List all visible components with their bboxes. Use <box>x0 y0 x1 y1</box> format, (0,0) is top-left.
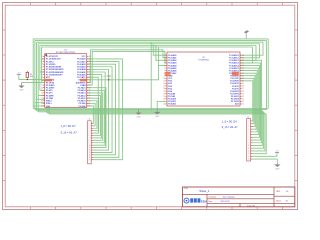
svg-text:16: 16 <box>89 159 91 161</box>
U1 highlighted pin left <box>45 79 52 82</box>
svg-text:1_5 = D0..D4: 1_5 = D0..D4 <box>222 120 237 123</box>
svg-text:GND: GND <box>155 116 160 118</box>
svg-text:P2.6/A14: P2.6/A14 <box>231 98 240 101</box>
svg-text:P0.5/AD5: P0.5/AD5 <box>168 67 176 70</box>
svg-text:1/1: 1/1 <box>286 200 289 202</box>
svg-text:26: 26 <box>89 93 91 95</box>
svg-text:21: 21 <box>89 106 91 108</box>
svg-text:10: 10 <box>89 145 91 147</box>
svg-text:11: 11 <box>248 148 250 150</box>
svg-text:37: 37 <box>242 63 244 65</box>
ground under U2 <box>157 101 167 109</box>
svg-text:18: 18 <box>163 98 165 100</box>
svg-text:J1: J1 <box>88 119 90 121</box>
svg-text:17: 17 <box>41 98 43 100</box>
frame zone ticks <box>29 3 31 6</box>
svg-text:P1.4/ADC4: P1.4/ADC4 <box>229 64 240 67</box>
svg-text:25: 25 <box>89 95 91 97</box>
svg-text:1: 1 <box>42 56 43 58</box>
svg-text:Sheet_1: Sheet_1 <box>199 189 210 193</box>
svg-text:P1.3/ADC3: P1.3/ADC3 <box>229 62 239 65</box>
svg-text:P2.4/A12: P2.4/A12 <box>168 103 176 106</box>
connector J2 <box>247 119 251 161</box>
svg-text:Drawn By:: Drawn By: <box>247 205 256 207</box>
svg-text:P2.2/A10: P2.2/A10 <box>168 98 176 101</box>
svg-text:P0.1/AD1: P0.1/AD1 <box>168 57 176 60</box>
svg-text:P1.2/ADC2: P1.2/ADC2 <box>229 59 239 62</box>
junction RST <box>27 79 28 80</box>
svg-text:P0.2/AD2: P0.2/AD2 <box>77 63 85 66</box>
svg-text:15: 15 <box>41 93 43 95</box>
svg-text:12: 12 <box>248 151 250 153</box>
svg-text:GND: GND <box>136 116 141 118</box>
svg-text:40: 40 <box>89 56 91 58</box>
svg-text:12: 12 <box>163 83 165 85</box>
svg-text:4: 4 <box>42 64 43 66</box>
svg-text:19: 19 <box>41 103 43 105</box>
svg-text:25: 25 <box>242 93 244 95</box>
svg-text:J2: J2 <box>247 117 249 119</box>
svg-text:ALE/PROG: ALE/PROG <box>76 81 86 84</box>
svg-text:2022-11-29: 2022-11-29 <box>220 201 229 203</box>
svg-text:P2.5/A13: P2.5/A13 <box>231 95 239 98</box>
svg-text:P0.0/AD0: P0.0/AD0 <box>168 54 176 57</box>
svg-text:P0.4/AD4: P0.4/AD4 <box>168 64 177 67</box>
svg-text:9: 9 <box>42 77 43 79</box>
svg-text:GND: GND <box>46 106 51 108</box>
svg-text:P2.3/A11: P2.3/A11 <box>168 100 176 103</box>
wire RST net <box>19 79 45 81</box>
svg-text:31: 31 <box>89 79 91 81</box>
U1 pin1 mark <box>45 54 47 56</box>
svg-text:14: 14 <box>163 88 165 90</box>
ground reset circuit <box>22 81 45 83</box>
svg-text:12: 12 <box>41 85 43 87</box>
svg-text:P2.3/A11: P2.3/A11 <box>78 97 86 100</box>
svg-text:P0.0/AD0: P0.0/AD0 <box>77 58 85 61</box>
svg-text:P0.5/AD5: P0.5/AD5 <box>77 71 85 74</box>
svg-text:REV:: REV: <box>276 191 281 193</box>
svg-text:16: 16 <box>41 95 43 97</box>
svg-text:10: 10 <box>248 145 250 147</box>
svg-text:30: 30 <box>89 82 91 84</box>
svg-text:6: 6 <box>42 69 43 71</box>
resistor R1 <box>26 72 29 77</box>
svg-text:13: 13 <box>89 152 91 154</box>
svg-text:24: 24 <box>242 96 244 98</box>
svg-text:26: 26 <box>242 91 244 93</box>
svg-text:XTAL2: XTAL2 <box>46 100 52 103</box>
svg-text:Your Company: Your Company <box>223 197 235 199</box>
svg-text:34: 34 <box>242 70 244 72</box>
svg-text:3: 3 <box>42 61 43 63</box>
svg-text:P0.3/AD3: P0.3/AD3 <box>168 62 176 65</box>
U2 pins and labels <box>165 54 167 56</box>
svg-text:P2.6/A14: P2.6/A14 <box>78 89 87 92</box>
svg-text:P4.2: P4.2 <box>168 85 172 88</box>
svg-text:20: 20 <box>41 106 43 108</box>
svg-text:32: 32 <box>89 77 91 79</box>
svg-text:14: 14 <box>248 156 250 158</box>
wire left wrap verticals <box>32 39 34 109</box>
svg-text:15: 15 <box>163 91 165 93</box>
logo JLCEDA <box>184 198 189 203</box>
power +5V port top <box>244 30 249 33</box>
svg-text:P4.0: P4.0 <box>168 80 172 83</box>
power +5V mid tap <box>108 76 110 80</box>
svg-text:P1.4/CEX1/SS/MI: P1.4/CEX1/SS/MI <box>46 66 62 69</box>
svg-text:28: 28 <box>89 87 91 89</box>
svg-text:P1.7/CEX4/SCK/P7: P1.7/CEX4/SCK/P7 <box>46 73 63 76</box>
svg-text:P2.0/A8: P2.0/A8 <box>79 105 86 108</box>
svg-text:16: 16 <box>163 93 165 95</box>
svg-text:21: 21 <box>242 104 244 106</box>
svg-text:7: 7 <box>164 70 165 72</box>
svg-text:15: 15 <box>89 157 91 159</box>
sheet border frame <box>3 3 298 210</box>
svg-text:23: 23 <box>89 100 91 102</box>
svg-text:39: 39 <box>242 57 244 59</box>
svg-text:Company:: Company: <box>208 197 217 199</box>
svg-text:P0.7/AD7: P0.7/AD7 <box>77 76 85 79</box>
svg-text:38: 38 <box>89 61 91 63</box>
svg-text:P0.3/AD3: P0.3/AD3 <box>77 66 85 69</box>
wire U2 right to J2 staircase <box>240 81 253 121</box>
svg-text:28: 28 <box>242 86 244 88</box>
svg-text:P3.4/T0: P3.4/T0 <box>46 89 53 92</box>
svg-text:38: 38 <box>242 60 244 62</box>
svg-text:29: 29 <box>89 85 91 87</box>
svg-text:15: 15 <box>248 159 250 161</box>
svg-text:GND: GND <box>19 90 24 92</box>
wire bundle to U2 left pins <box>150 42 152 111</box>
svg-text:EDA: EDA <box>201 200 208 204</box>
svg-text:40: 40 <box>242 55 244 57</box>
svg-text:+5V: +5V <box>102 76 106 78</box>
svg-text:8: 8 <box>42 74 43 76</box>
svg-text:P3.4/T0: P3.4/T0 <box>232 85 239 88</box>
svg-text:P2.2/A10: P2.2/A10 <box>78 100 86 103</box>
svg-text:P2.0/A8: P2.0/A8 <box>168 92 175 95</box>
ic U2 body <box>167 52 240 106</box>
svg-text:1_8 = D0..D7: 1_8 = D0..D7 <box>61 124 77 128</box>
ground right of J2 <box>276 159 278 162</box>
svg-text:34: 34 <box>89 72 91 74</box>
svg-text:31: 31 <box>242 78 244 80</box>
svg-text:Sheet:: Sheet: <box>276 199 282 202</box>
svg-text:22: 22 <box>89 103 91 105</box>
svg-text:36: 36 <box>89 66 91 68</box>
svg-text:P0.6/AD6: P0.6/AD6 <box>77 73 85 76</box>
svg-text:20: 20 <box>163 104 165 106</box>
svg-text:12: 12 <box>89 150 91 152</box>
svg-text:39: 39 <box>89 59 91 61</box>
svg-text:5: 5 <box>42 66 43 68</box>
power +5V right of J2 <box>276 153 278 157</box>
svg-text:36: 36 <box>242 65 244 67</box>
svg-text:P2.7/A15: P2.7/A15 <box>78 86 86 89</box>
svg-text:30: 30 <box>242 80 244 82</box>
svg-text:P1.1/ADC1: P1.1/ADC1 <box>229 57 239 60</box>
svg-text:P2.7/A15: P2.7/A15 <box>231 100 239 103</box>
svg-text:35: 35 <box>242 68 244 70</box>
svg-text:XTAL1: XTAL1 <box>46 102 52 105</box>
wire EA net <box>87 66 159 80</box>
svg-text:10: 10 <box>163 78 165 80</box>
ic U1 body <box>45 54 87 108</box>
svg-text:27: 27 <box>89 90 91 92</box>
svg-text:33: 33 <box>242 73 244 75</box>
U2 highlighted pin right <box>232 72 239 76</box>
svg-text:STC8F2K64: STC8F2K64 <box>198 60 208 62</box>
svg-text:P1.5/ADC5: P1.5/ADC5 <box>229 67 239 70</box>
svg-text:Date:: Date: <box>208 200 213 203</box>
svg-text:U1: U1 <box>64 49 68 51</box>
svg-text:P2.4/A12: P2.4/A12 <box>78 94 86 97</box>
svg-text:13: 13 <box>163 86 165 88</box>
svg-text:P2.1/A9: P2.1/A9 <box>168 95 175 98</box>
svg-text:1.0: 1.0 <box>286 191 289 193</box>
svg-text:P0.4/AD4: P0.4/AD4 <box>77 68 86 71</box>
svg-text:35: 35 <box>89 69 91 71</box>
svg-text:P4.1: P4.1 <box>168 82 172 85</box>
U1 highlighted pin right <box>80 79 87 82</box>
svg-text:32: 32 <box>242 75 244 77</box>
svg-text:18: 18 <box>41 100 43 102</box>
svg-text:11: 11 <box>89 147 91 149</box>
svg-text:14: 14 <box>89 154 91 156</box>
svg-text:P2.5/A13: P2.5/A13 <box>78 92 86 95</box>
U1 pins and labels <box>43 55 45 57</box>
svg-text:P4.3: P4.3 <box>168 87 172 90</box>
svg-text:29: 29 <box>242 83 244 85</box>
svg-text:TITLE:: TITLE: <box>184 188 189 190</box>
svg-text:24: 24 <box>89 98 91 100</box>
svg-text:GND: GND <box>275 168 280 170</box>
svg-text:22: 22 <box>242 101 244 103</box>
wire band bus <box>33 108 268 110</box>
svg-text:13: 13 <box>248 153 250 155</box>
svg-text:+5V: +5V <box>275 150 279 152</box>
connector J1 <box>88 121 92 164</box>
wire U1 staircase fan to J1 <box>87 106 94 123</box>
svg-text:P2.1/A9: P2.1/A9 <box>79 102 86 105</box>
svg-text:23: 23 <box>242 98 244 100</box>
svg-text:6: 6 <box>164 68 165 70</box>
wire bundle wrap U2 right <box>240 42 263 55</box>
svg-text:STC89C52RC(PDIP): STC89C52RC(PDIP) <box>56 52 76 54</box>
U2 highlighted pin left <box>165 72 171 74</box>
svg-text:P0.2/AD2: P0.2/AD2 <box>168 59 176 62</box>
svg-text:9_16 = A0..A7: 9_16 = A0..A7 <box>61 130 78 134</box>
svg-text:27: 27 <box>242 88 244 90</box>
title block frame <box>183 187 295 207</box>
svg-text:37: 37 <box>89 64 91 66</box>
wire top bundle horizontals <box>33 38 268 40</box>
wire J2 power pins <box>252 155 277 157</box>
svg-text:13: 13 <box>41 87 43 89</box>
svg-text:6_13 = A0..A7: 6_13 = A0..A7 <box>222 126 238 129</box>
svg-text:P0.1/AD1: P0.1/AD1 <box>77 60 85 63</box>
svg-text:17: 17 <box>163 96 165 98</box>
svg-text:P1.0/ADC0: P1.0/ADC0 <box>229 54 239 57</box>
svg-text:33: 33 <box>89 74 91 76</box>
svg-text:11: 11 <box>163 80 165 82</box>
svg-text:14: 14 <box>41 90 43 92</box>
ground mid U1 <box>138 110 140 113</box>
